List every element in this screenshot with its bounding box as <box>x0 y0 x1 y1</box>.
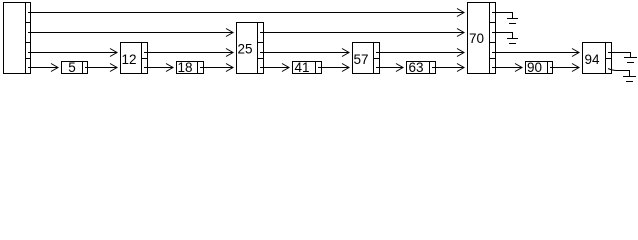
node 57 <box>353 43 380 74</box>
svg-text:41: 41 <box>294 60 309 75</box>
wire level 0: 5 to 12 <box>85 67 117 69</box>
svg-text:12: 12 <box>121 52 136 67</box>
svg-text:94: 94 <box>584 52 600 67</box>
wire level 0: header to 5 <box>28 67 58 69</box>
ground NIL G3 <box>507 19 518 24</box>
wire level 0: 70 to 90 <box>492 67 522 69</box>
node 18 <box>177 62 204 74</box>
svg-text:70: 70 <box>469 31 484 46</box>
wire level 0: 18 to 25 <box>200 67 233 69</box>
wire level 0: 25 to 41 <box>260 67 289 69</box>
svg-text:5: 5 <box>68 60 76 75</box>
node 5 <box>62 62 88 74</box>
wire level 0: 63 to 70 <box>432 67 464 69</box>
wire level 0: 12 to 18 <box>144 67 173 69</box>
wire level 3: header to 70 <box>28 12 464 14</box>
svg-text:18: 18 <box>177 60 192 75</box>
node 70 <box>468 3 496 74</box>
svg-text:90: 90 <box>527 60 542 75</box>
svg-text:25: 25 <box>237 42 252 57</box>
node 63 <box>407 62 436 74</box>
wire level 0: 94 to NIL <box>608 69 630 77</box>
ground NIL G0 <box>623 77 636 82</box>
wire level 0: 41 to 57 <box>318 67 349 69</box>
svg-text:57: 57 <box>353 52 368 67</box>
wire level 1: header to 12 <box>28 52 117 54</box>
node 90 <box>526 62 553 74</box>
wire level 3: 70 to NIL <box>492 13 513 19</box>
wire level 2: header to 25 <box>28 32 233 34</box>
node 12 <box>121 43 148 74</box>
ground NIL G1 <box>624 58 637 63</box>
ground NIL G2 <box>507 39 518 44</box>
header node HDR <box>4 3 31 74</box>
wire level 1: 25 to 57 <box>260 52 349 54</box>
wire level 1: 94 to NIL <box>608 53 631 58</box>
wire level 0: 57 to 63 <box>376 67 403 69</box>
node 94 <box>583 43 612 74</box>
wire level 0: 90 to 94 <box>550 67 579 69</box>
wire level 1: 57 to 70 <box>376 52 464 54</box>
node 41 <box>293 62 322 74</box>
svg-text:63: 63 <box>408 60 423 75</box>
wire level 2: 70 to NIL <box>492 33 513 39</box>
wire level 1: 12 to 25 <box>144 52 233 54</box>
node 25 <box>237 23 264 74</box>
wire level 1: 70 to 94 <box>492 52 579 54</box>
wire level 2: 25 to 70 <box>260 32 464 34</box>
